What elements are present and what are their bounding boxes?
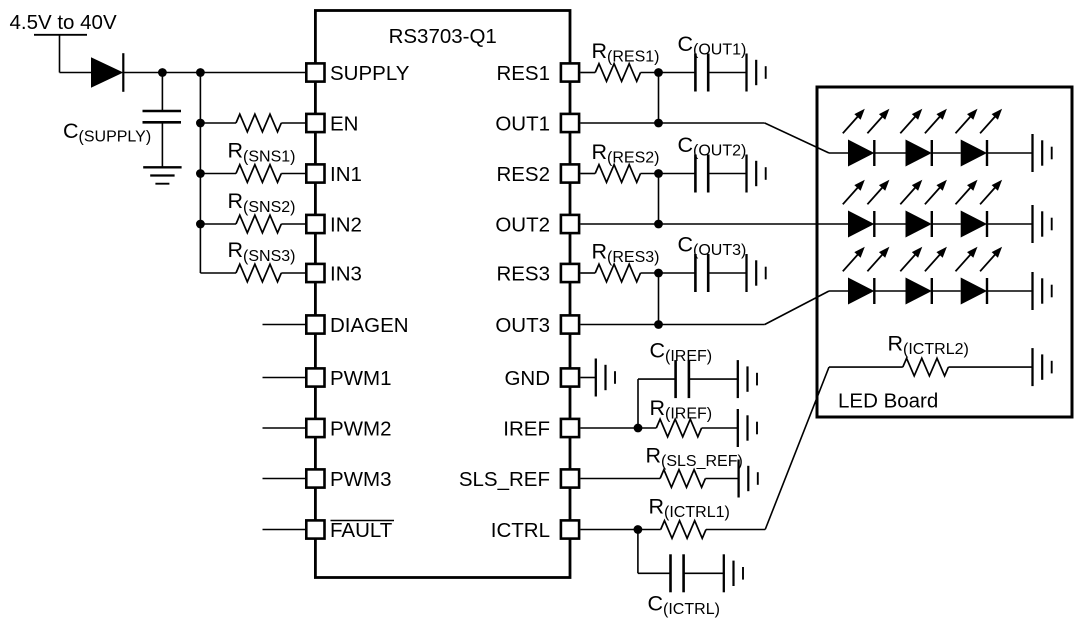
ground (R SLS_REF): [737, 460, 739, 498]
ground (C OUT2): [745, 155, 747, 193]
wire OUT3 to LED board: [580, 324, 764, 326]
pin ICTRL: [561, 520, 579, 538]
wire IREF node up to C(IREF): [637, 379, 639, 428]
wire C(IREF) to ground: [689, 378, 738, 380]
svg-text:R(SNS2): R(SNS2): [228, 189, 296, 216]
wire stub PWM3: [263, 478, 306, 480]
pin IN3: [306, 264, 324, 282]
wire R(ICTRL1) to LED board: [706, 529, 765, 531]
svg-text:LED Board: LED Board: [838, 390, 938, 413]
resistor R(RES3): [595, 264, 640, 282]
wire stub PWM1: [263, 377, 306, 379]
svg-text:R(SNS3): R(SNS3): [228, 238, 296, 265]
wire resistor to EN pin: [281, 122, 305, 124]
wire bus to IN2 resistor: [200, 223, 236, 225]
LED board outline: [817, 87, 1072, 417]
node bus-IN2: [196, 220, 205, 229]
svg-text:GND: GND: [504, 367, 550, 390]
pin DIAGEN: [306, 315, 324, 333]
svg-text:R(RES3): R(RES3): [592, 240, 660, 267]
svg-text:OUT1: OUT1: [495, 113, 550, 136]
pin PWM2: [306, 419, 324, 437]
capacitor C(ICTRL): [669, 554, 672, 592]
svg-text:IN3: IN3: [330, 263, 362, 286]
wire resistor to node: [641, 272, 696, 274]
svg-text:SLS_REF: SLS_REF: [459, 468, 550, 491]
ground (C OUT3): [745, 254, 747, 292]
ground (C OUT1): [745, 54, 747, 92]
LED D13: [961, 140, 987, 167]
wire node RES2 to OUT2: [658, 174, 660, 225]
LED D11: [848, 140, 874, 167]
capacitor C(IREF): [674, 360, 677, 398]
wire: [874, 223, 905, 225]
node OUT3: [654, 320, 663, 329]
resistor R(RES1): [595, 64, 640, 82]
wire LED string to ground: [987, 223, 1033, 225]
wire stub PWM2: [263, 427, 306, 429]
wire ICTRL node down to C(ICTRL): [637, 530, 639, 574]
LED D22: [906, 211, 932, 238]
ground (C ICTRL): [723, 554, 725, 592]
wire OUT2 to LED board: [580, 223, 848, 225]
svg-text:SUPPLY: SUPPLY: [330, 62, 410, 85]
pin OUT2: [561, 215, 579, 233]
svg-text:PWM1: PWM1: [330, 367, 392, 390]
svg-text:R(ICTRL2): R(ICTRL2): [888, 332, 969, 359]
svg-text:C(IREF): C(IREF): [650, 339, 713, 366]
wire resistor to node: [641, 173, 696, 175]
ground (LED string 3): [1031, 272, 1033, 310]
capacitor C(OUT1): [694, 54, 697, 92]
wire RES3 pin to resistor: [580, 272, 595, 274]
svg-text:RES2: RES2: [496, 163, 550, 186]
wire diode to SUPPLY pin: [123, 72, 305, 74]
wire SLS_REF pin to resistor: [580, 478, 660, 480]
LED D23: [961, 211, 987, 238]
wire cap to ground: [708, 72, 746, 74]
wire LED string to ground: [987, 152, 1033, 154]
wire cap to ground: [708, 272, 746, 274]
wire OUT1 to LED board: [580, 122, 764, 124]
wire IREF pin to node: [580, 427, 656, 429]
LED D33: [961, 278, 987, 305]
svg-text:R(IREF): R(IREF): [650, 396, 713, 423]
ground (C supply): [143, 166, 181, 168]
pin IN1: [306, 164, 324, 182]
node RES2: [654, 169, 663, 178]
node ICTRL: [634, 525, 643, 534]
svg-text:RES1: RES1: [496, 62, 550, 85]
IC U1 RS3703-Q1 body: [315, 11, 570, 578]
pin SLS_REF: [561, 469, 579, 487]
wire: [932, 290, 961, 292]
LED D32: [906, 278, 932, 305]
ground (GND pin): [595, 359, 597, 397]
svg-text:ICTRL: ICTRL: [491, 519, 550, 542]
node supply-cap junction: [158, 68, 167, 77]
wire ICTRL pin to node: [580, 529, 660, 531]
node RES1: [654, 68, 663, 77]
svg-text:OUT2: OUT2: [495, 214, 550, 237]
pin SUPPLY: [306, 63, 324, 81]
wire stub FAULT: [263, 529, 306, 531]
capacitor C(OUT2): [694, 155, 697, 193]
svg-text:DIAGEN: DIAGEN: [330, 314, 409, 337]
LED D21: [848, 211, 874, 238]
svg-text:R(SLS_REF): R(SLS_REF): [646, 444, 743, 471]
wire: [874, 290, 905, 292]
pin OUT1: [561, 114, 579, 132]
svg-text:EN: EN: [330, 113, 358, 136]
pin PWM3: [306, 469, 324, 487]
ground (R IREF): [737, 409, 739, 447]
wire sense bus: [199, 73, 201, 274]
svg-text:RS3703-Q1: RS3703-Q1: [389, 25, 497, 48]
wire bus to IN3 resistor: [200, 272, 236, 274]
ground (LED string 2): [1031, 205, 1033, 243]
resistor R(SNS2): [236, 215, 281, 233]
svg-text:R(RES2): R(RES2): [592, 140, 660, 167]
wire LED string to ground: [987, 290, 1033, 292]
resistor R(RES2): [595, 165, 640, 183]
svg-text:PWM3: PWM3: [330, 468, 392, 491]
resistor R(SNS3): [236, 264, 281, 282]
ground (C IREF): [737, 360, 739, 398]
wire resistor to node: [641, 72, 696, 74]
node RES3: [654, 269, 663, 278]
wire resistor to IN3 pin: [281, 272, 305, 274]
pin PWM1: [306, 368, 324, 386]
wire resistor to IN2 pin: [281, 223, 305, 225]
svg-text:4.5V to 40V: 4.5V to 40V: [10, 11, 117, 34]
svg-text:IN2: IN2: [330, 214, 362, 237]
svg-text:OUT3: OUT3: [495, 314, 550, 337]
resistor R(SLS_REF): [660, 470, 705, 488]
wire R(SLS_REF) to ground: [705, 478, 738, 480]
wire R(ICTRL2) to ground: [948, 366, 1032, 368]
diode D1: [91, 57, 123, 87]
capacitor C(OUT3): [694, 254, 697, 292]
pin RES2: [561, 164, 579, 182]
LED D31: [848, 278, 874, 305]
ground (R ICTRL2): [1031, 348, 1033, 386]
node bus-IN1: [196, 169, 205, 178]
svg-text:C(OUT3): C(OUT3): [678, 233, 747, 260]
resistor R (EN): [236, 114, 281, 132]
svg-text:RES3: RES3: [496, 263, 550, 286]
resistor R(SNS1): [236, 165, 281, 183]
svg-text:FAULT: FAULT: [330, 519, 393, 542]
wire supply rail to diode: [59, 35, 61, 73]
svg-text:C(OUT1): C(OUT1): [678, 32, 747, 59]
svg-text:C(OUT2): C(OUT2): [678, 133, 747, 160]
wire stub DIAGEN: [263, 324, 306, 326]
pin GND: [561, 368, 579, 386]
pin RES1: [561, 63, 579, 81]
wire bus to IN1 resistor: [200, 173, 236, 175]
pin FAULT: [306, 520, 324, 538]
wire: [932, 152, 961, 154]
wire GND pin to ground: [580, 377, 595, 379]
LED D12: [906, 140, 932, 167]
svg-text:R(SNS1): R(SNS1): [228, 139, 296, 166]
node OUT2: [654, 220, 663, 229]
svg-text:R(ICTRL1): R(ICTRL1): [649, 495, 730, 522]
wire: [874, 152, 905, 154]
wire node RES1 to OUT1: [658, 73, 660, 124]
pin OUT3: [561, 315, 579, 333]
wire: [932, 223, 961, 225]
ground (LED string 1): [1031, 134, 1033, 172]
node IREF: [634, 424, 643, 433]
pin EN: [306, 114, 324, 132]
svg-text:R(RES1): R(RES1): [592, 39, 660, 66]
pin IREF: [561, 419, 579, 437]
pin IN2: [306, 215, 324, 233]
wire RES2 pin to resistor: [580, 173, 595, 175]
svg-text:C(ICTRL): C(ICTRL): [648, 592, 720, 619]
resistor R(ICTRL1): [661, 521, 706, 539]
svg-text:IN1: IN1: [330, 163, 362, 186]
wire bus to EN resistor: [200, 122, 236, 124]
pin RES3: [561, 264, 579, 282]
svg-text:IREF: IREF: [503, 418, 550, 441]
wire cap to ground: [708, 173, 746, 175]
wire node RES3 to OUT3: [658, 273, 660, 325]
node supply-bus junction: [196, 68, 205, 77]
resistor R(IREF): [656, 419, 701, 437]
node OUT1: [654, 119, 663, 128]
capacitor C(SUPPLY): [161, 73, 163, 112]
resistor R(ICTRL2): [903, 358, 949, 376]
wire C(ICTRL) to ground: [684, 572, 724, 574]
wire R(ICTRL2): [829, 366, 903, 368]
wire R(IREF) to ground: [702, 427, 738, 429]
node bus-EN: [196, 119, 205, 128]
svg-text:C(SUPPLY): C(SUPPLY): [63, 119, 151, 146]
svg-text:PWM2: PWM2: [330, 418, 392, 441]
wire RES1 pin to resistor: [580, 72, 595, 74]
wire resistor to IN1 pin: [281, 173, 305, 175]
